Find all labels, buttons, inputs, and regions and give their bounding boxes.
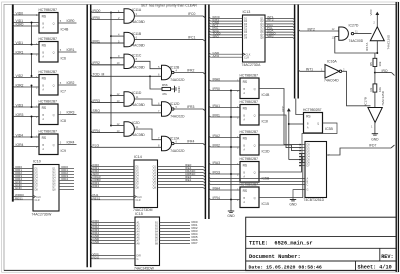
svg-text:GND: GND xyxy=(227,214,235,218)
svg-text:RS: RS xyxy=(243,106,247,110)
svg-text:IFR1: IFR1 xyxy=(93,39,100,43)
svg-text:RES1: RES1 xyxy=(15,196,23,200)
svg-text:IFC0: IFC0 xyxy=(188,12,195,16)
svg-text:74AC08D: 74AC08D xyxy=(131,133,146,137)
svg-text:IC15: IC15 xyxy=(262,202,269,206)
svg-text:74AC04D: 74AC04D xyxy=(324,79,339,83)
svg-text:G: G xyxy=(307,189,309,192)
svg-text:IFR1: IFR1 xyxy=(213,113,220,117)
svg-text:INT1: INT1 xyxy=(306,68,313,72)
svg-text:IOD4: IOD4 xyxy=(61,177,68,181)
svg-text:GND: GND xyxy=(371,137,379,141)
svg-text:IRQ: IRQ xyxy=(382,69,388,73)
svg-text:IC2D: IC2D xyxy=(132,121,140,125)
svg-text:VID2: VID2 xyxy=(16,74,24,78)
svg-text:C: C xyxy=(307,184,309,187)
svg-text:IC14: IC14 xyxy=(134,155,142,159)
svg-text:IC27D: IC27D xyxy=(349,24,359,28)
svg-text:Q: Q xyxy=(254,197,256,200)
svg-text:IC4B: IC4B xyxy=(61,28,69,32)
svg-text:IC6: IC6 xyxy=(61,57,67,61)
svg-text:SRQ: SRQ xyxy=(213,34,220,38)
svg-text:HCT9B02B7: HCT9B02B7 xyxy=(240,130,259,134)
svg-text:IC3D: IC3D xyxy=(262,150,270,154)
svg-text:IOR1: IOR1 xyxy=(16,50,24,54)
svg-text:IFD7: IFD7 xyxy=(369,144,376,148)
svg-text:IOR3: IOR3 xyxy=(67,111,75,115)
svg-text:IC16A: IC16A xyxy=(327,60,337,64)
svg-text:HCT9B02B7: HCT9B02B7 xyxy=(240,157,259,161)
svg-text:IOR1: IOR1 xyxy=(67,48,75,52)
svg-text:IC10: IC10 xyxy=(33,160,41,164)
svg-text:IRQ0: IRQ0 xyxy=(93,9,101,13)
svg-text:IFR4: IFR4 xyxy=(93,129,100,133)
svg-text:RDQ: RDQ xyxy=(93,255,100,259)
svg-text:R5: R5 xyxy=(369,62,373,66)
svg-text:GND: GND xyxy=(93,240,101,244)
svg-text:SET has higher priority than C: SET has higher priority than CLEAR xyxy=(141,3,197,7)
svg-text:A/D2: A/D2 xyxy=(213,54,220,58)
svg-text:CLR: CLR xyxy=(244,56,249,59)
svg-text:IC8: IC8 xyxy=(61,119,67,123)
svg-text:74AC08D: 74AC08D xyxy=(131,103,146,107)
svg-text:Q: Q xyxy=(53,23,55,26)
svg-text:IC17A: IC17A xyxy=(365,43,369,51)
svg-text:RS: RS xyxy=(243,136,247,140)
svg-text:R2: R2 xyxy=(369,87,373,91)
svg-text:RS: RS xyxy=(243,80,247,84)
svg-text:IFR0: IFR0 xyxy=(93,16,100,20)
svg-text:IRA1: IRA1 xyxy=(213,104,221,108)
svg-text:RES1: RES1 xyxy=(93,196,101,200)
svg-text:HCT9B02B7: HCT9B02B7 xyxy=(39,8,58,12)
svg-text:Date: 15.05.2020 08:58:46: Date: 15.05.2020 08:58:46 xyxy=(249,265,322,271)
svg-text:TITLE: 6526_main_sr: TITLE: 6526_main_sr xyxy=(249,241,313,247)
svg-text:IOR0: IOR0 xyxy=(16,22,24,26)
svg-text:GND: GND xyxy=(289,203,297,207)
svg-text:CLR: CLR xyxy=(35,199,40,202)
svg-text:RS: RS xyxy=(243,189,247,193)
svg-text:VID4: VID4 xyxy=(16,133,24,137)
svg-text:HCT9B02B7: HCT9B02B7 xyxy=(39,100,58,104)
svg-text:RS: RS xyxy=(42,76,46,80)
svg-text:IFR2: IFR2 xyxy=(187,69,194,73)
svg-text:REV:: REV: xyxy=(381,254,393,260)
svg-text:IOR0: IOR0 xyxy=(67,19,75,23)
svg-text:IC4B: IC4B xyxy=(262,93,270,97)
svg-text:IFD3: IFD3 xyxy=(213,170,220,174)
svg-text:HCT9B02B7: HCT9B02B7 xyxy=(39,37,58,41)
svg-text:IFR0: IFR0 xyxy=(213,87,220,91)
svg-text:Q: Q xyxy=(53,52,55,55)
svg-text:Document Number:: Document Number: xyxy=(249,254,301,260)
svg-text:RS: RS xyxy=(42,136,46,140)
svg-text:FLG: FLG xyxy=(93,144,100,148)
svg-text:74CBT3251D: 74CBT3251D xyxy=(304,198,325,202)
svg-text:74AC273DA: 74AC273DA xyxy=(242,63,262,67)
svg-text:RS: RS xyxy=(243,163,247,167)
svg-text:IRA3: IRA3 xyxy=(213,161,221,165)
svg-text:RS: RS xyxy=(42,43,46,47)
svg-text:IRA2: IRA2 xyxy=(213,134,221,138)
svg-text:IC17B: IC17B xyxy=(364,97,368,105)
svg-text:Q: Q xyxy=(254,88,256,91)
svg-text:74AC08D: 74AC08D xyxy=(131,65,146,69)
svg-text:VCC: VCC xyxy=(281,105,285,112)
svg-text:GND: GND xyxy=(15,186,23,190)
svg-text:G: G xyxy=(137,258,139,261)
svg-text:IFC1: IFC1 xyxy=(188,36,195,40)
svg-text:Sheet: 4/10: Sheet: 4/10 xyxy=(358,265,392,271)
svg-text:IOR4: IOR4 xyxy=(16,143,24,147)
svg-text:VID0: VID0 xyxy=(16,11,24,15)
svg-text:INT2: INT2 xyxy=(308,28,315,32)
svg-text:IC11A: IC11A xyxy=(132,8,142,12)
svg-text:74AC00D: 74AC00D xyxy=(349,39,364,43)
svg-text:Q: Q xyxy=(53,85,55,88)
svg-text:Q: Q xyxy=(254,145,256,148)
svg-text:GND: GND xyxy=(177,86,181,92)
svg-text:IOR3: IOR3 xyxy=(16,113,24,117)
svg-text:Q: Q xyxy=(254,172,256,175)
svg-text:74AC245DW: 74AC245DW xyxy=(134,266,155,270)
svg-text:IOR4: IOR4 xyxy=(67,141,75,145)
svg-text:TOD_M: TOD_M xyxy=(93,73,105,77)
svg-text:IC11B: IC11B xyxy=(132,32,142,36)
svg-text:IC11D: IC11D xyxy=(132,91,142,95)
svg-text:Q: Q xyxy=(254,115,256,118)
svg-text:CLR: CLR xyxy=(136,199,141,202)
svg-text:IFR3: IFR3 xyxy=(93,99,100,103)
svg-text:SRQ: SRQ xyxy=(267,34,274,38)
svg-text:IOR2: IOR2 xyxy=(16,83,24,87)
svg-text:RS: RS xyxy=(42,106,46,110)
svg-text:IC13: IC13 xyxy=(243,10,251,14)
svg-text:IFR3: IFR3 xyxy=(187,105,194,109)
svg-text:RS: RS xyxy=(42,14,46,18)
svg-text:74AC273DW: 74AC273DW xyxy=(32,212,53,216)
svg-text:IFR2: IFR2 xyxy=(93,61,100,65)
svg-text:IFR4: IFR4 xyxy=(93,184,100,188)
svg-text:SRQ: SRQ xyxy=(93,109,101,113)
svg-text:INT2: INT2 xyxy=(267,18,274,22)
svg-text:VID1: VID1 xyxy=(16,41,24,45)
svg-text:IFR4: IFR4 xyxy=(187,140,194,144)
svg-text:HCT9B02B7: HCT9B02B7 xyxy=(39,130,58,134)
svg-text:IC9: IC9 xyxy=(61,149,67,153)
svg-text:74AC02D: 74AC02D xyxy=(170,149,185,153)
svg-text:74AC02D: 74AC02D xyxy=(170,78,185,82)
svg-text:74AC02D: 74AC02D xyxy=(170,114,185,118)
svg-text:VID3: VID3 xyxy=(16,103,24,107)
svg-text:IC7: IC7 xyxy=(61,90,67,94)
svg-text:HCT9B02B7: HCT9B02B7 xyxy=(39,70,58,74)
svg-text:RD7: RD7 xyxy=(192,241,198,245)
svg-text:IC3B: IC3B xyxy=(325,127,333,131)
svg-text:HCT9B02B7: HCT9B02B7 xyxy=(240,100,259,104)
svg-text:IRA0: IRA0 xyxy=(213,77,221,81)
svg-text:IC3I: IC3I xyxy=(262,120,268,124)
svg-text:HCT9B02B7: HCT9B02B7 xyxy=(303,108,322,112)
svg-text:IC15: IC15 xyxy=(135,212,143,216)
svg-text:IFE1: IFE1 xyxy=(185,178,192,182)
svg-text:74AC08D: 74AC08D xyxy=(131,20,146,24)
svg-text:47k: 47k xyxy=(162,92,167,96)
svg-text:IC11C: IC11C xyxy=(132,54,142,58)
svg-text:RS: RS xyxy=(306,114,310,118)
svg-text:IRA4: IRA4 xyxy=(213,186,221,190)
svg-text:Q: Q xyxy=(317,123,319,126)
svg-text:HCT9B02B7: HCT9B02B7 xyxy=(240,74,259,78)
svg-text:10k: 10k xyxy=(378,61,382,66)
svg-text:Q: Q xyxy=(53,144,55,147)
svg-text:74AC125D: 74AC125D xyxy=(381,90,385,106)
svg-text:74AC08D: 74AC08D xyxy=(131,44,146,48)
svg-text:IOR2: IOR2 xyxy=(67,81,75,85)
svg-text:VCC: VCC xyxy=(369,8,373,15)
svg-text:Q: Q xyxy=(53,114,55,117)
svg-text:R56: R56 xyxy=(162,83,168,87)
svg-text:IFR2: IFR2 xyxy=(213,143,220,147)
svg-text:74AC126D: 74AC126D xyxy=(387,34,391,50)
svg-text:IFR4: IFR4 xyxy=(213,196,220,200)
